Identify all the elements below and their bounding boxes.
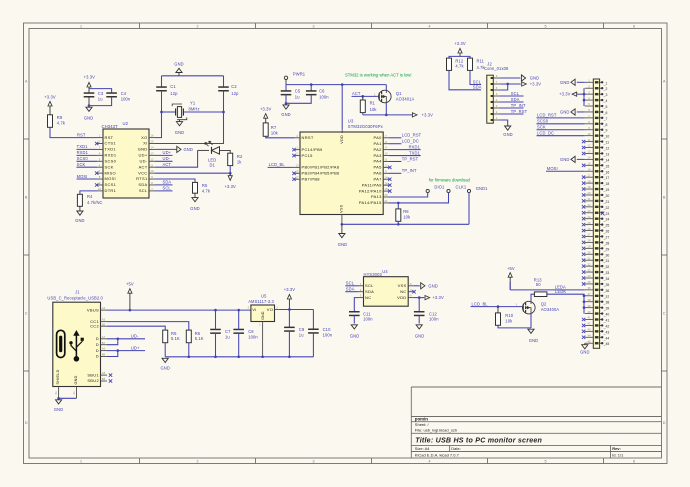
- svg-text:C3: C3: [98, 91, 104, 96]
- svg-text:R5: R5: [171, 331, 177, 336]
- svg-text:SCK: SCK: [537, 125, 546, 130]
- wire DTR1 to R4: [80, 191, 97, 194]
- svg-text:for firmware download: for firmware download: [429, 178, 471, 183]
- svg-text:CLK1: CLK1: [456, 184, 467, 189]
- svg-text:VSS: VSS: [398, 283, 407, 288]
- svg-text:14: 14: [150, 146, 154, 150]
- svg-text:11: 11: [151, 163, 154, 167]
- junction R8 top: [397, 202, 400, 205]
- svg-text:SCS0: SCS0: [537, 119, 549, 124]
- wire UD+ stub: [118, 350, 145, 352]
- svg-text:PA1: PA1: [374, 141, 383, 146]
- svg-text:_35: _35: [603, 283, 610, 287]
- svg-text:_6: _6: [603, 111, 608, 115]
- svg-text:4.7k/NC: 4.7k/NC: [87, 200, 103, 205]
- wire J2 pin1 to GND: [500, 120, 508, 126]
- ground symbol at J3 pin45: [580, 343, 589, 355]
- svg-text:TXD1: TXD1: [77, 144, 89, 149]
- J3 right side pin name labels: [603, 81, 610, 346]
- connector J3 body: [593, 79, 599, 348]
- svg-text:S1: S1: [54, 391, 58, 395]
- wire LCD_DC to J3 pin10: [537, 135, 585, 137]
- svg-text:PC14/PB9: PC14/PB9: [302, 147, 324, 152]
- wire C1 top stem: [161, 76, 163, 87]
- svg-text:4: 4: [429, 25, 431, 29]
- junction C8 top: [237, 309, 240, 312]
- svg-text:VI: VI: [252, 307, 256, 312]
- svg-text:7: 7: [496, 80, 498, 84]
- svg-text:LCD_BL: LCD_BL: [269, 162, 286, 167]
- svg-text:A: A: [663, 80, 666, 84]
- svg-text:38: 38: [587, 298, 591, 302]
- svg-text:C1: C1: [170, 84, 176, 89]
- title block size date rev labels: [415, 446, 621, 451]
- ground symbol at J3 pin14: [560, 156, 585, 162]
- svg-text:LCD_RST: LCD_RST: [402, 133, 422, 138]
- svg-text:+3.3V: +3.3V: [284, 287, 296, 292]
- svg-text:100n: 100n: [121, 97, 131, 102]
- svg-text:7: 7: [151, 187, 153, 191]
- svg-text:C7: C7: [225, 329, 231, 334]
- wire U5 GND stub down: [262, 322, 264, 357]
- wire J2 pin3 TP_INT: [500, 107, 524, 109]
- wire Q1 top to rail: [385, 85, 387, 91]
- svg-text:32: 32: [587, 262, 591, 266]
- junction U5 gnd rail: [261, 355, 264, 358]
- svg-text:TP_RST: TP_RST: [511, 109, 528, 114]
- svg-text:GND: GND: [174, 61, 183, 66]
- wire LEDA to J3 pin36: [510, 289, 585, 291]
- wire RTS1 to R3: [155, 179, 195, 182]
- svg-text:_19: _19: [603, 188, 610, 192]
- wire UD- bracket: [107, 339, 118, 345]
- svg-text:Date:: Date:: [451, 446, 461, 451]
- svg-text:D: D: [96, 342, 99, 347]
- junction R1 top: [361, 95, 364, 98]
- svg-text:9: 9: [99, 181, 101, 185]
- no-connects J3 pins 17-35: [582, 175, 585, 285]
- svg-text:6: 6: [633, 460, 635, 464]
- svg-text:MOSI: MOSI: [547, 166, 558, 171]
- svg-text:40: 40: [587, 310, 591, 314]
- capacitor C10: [308, 329, 319, 333]
- wire R8 bottom to gnd rail: [397, 221, 399, 224]
- svg-text:SBU1: SBU1: [87, 372, 99, 377]
- svg-text:XI: XI: [143, 141, 147, 146]
- svg-text:_29: _29: [603, 247, 610, 251]
- svg-text:GND: GND: [415, 334, 424, 339]
- J1 bottom pin stubs: [59, 387, 77, 399]
- wire J1 gnd to shield: [59, 397, 77, 399]
- capacitor C4: [106, 93, 117, 97]
- wire VBUS rail: [107, 309, 251, 311]
- svg-text:R9: R9: [57, 115, 63, 120]
- svg-text:26: 26: [587, 227, 591, 231]
- U4 left pin numbers: [360, 282, 362, 298]
- svg-text:12p: 12p: [170, 91, 178, 96]
- svg-text:_41: _41: [603, 319, 610, 323]
- svg-text:A1: A1: [72, 391, 76, 395]
- wire U4 VSS to GND flag: [413, 285, 420, 287]
- ground symbol below J2 pin1: [503, 126, 512, 137]
- svg-text:UD+: UD+: [138, 153, 147, 158]
- svg-text:DTR1: DTR1: [105, 188, 117, 193]
- wire UD+ stub at U2: [155, 154, 173, 156]
- wire UD- stub: [118, 338, 145, 340]
- ground symbol below R3: [190, 193, 199, 211]
- wire C7 top stem: [215, 310, 217, 329]
- wire C4 bottom to GND node: [89, 97, 112, 106]
- resistor R11: [468, 58, 473, 70]
- svg-text:_11: _11: [603, 141, 610, 145]
- svg-text:VO: VO: [267, 307, 273, 312]
- svg-text:_42: _42: [603, 324, 610, 328]
- junction J1 shield gnd: [57, 397, 60, 400]
- wire J3 pins 2-5 bracket: [583, 88, 585, 106]
- capacitor C12: [414, 312, 425, 316]
- svg-text:13: 13: [587, 150, 591, 154]
- svg-text:19: 19: [384, 187, 388, 191]
- wire C7 bottom stem: [215, 333, 217, 357]
- wire usb gnd rail: [165, 356, 313, 358]
- svg-text:4: 4: [99, 151, 101, 155]
- svg-text:17: 17: [587, 173, 591, 177]
- U4 right pin names: [397, 283, 406, 300]
- test point DIO1: [426, 189, 429, 192]
- crystal Y1: [172, 104, 187, 120]
- svg-text:15: 15: [150, 140, 154, 144]
- wire GND1 riser: [468, 193, 470, 225]
- no-connect J3 pin15: [582, 164, 585, 167]
- resistor R2: [228, 153, 233, 165]
- svg-text:RST: RST: [105, 135, 114, 140]
- no-connect U2 MISO: [95, 171, 98, 174]
- svg-text:VDD: VDD: [397, 295, 406, 300]
- wire C5 C6 bottoms to GND: [286, 95, 311, 104]
- wire U5 VO rail: [280, 309, 314, 311]
- svg-text:_37: _37: [603, 295, 610, 299]
- capacitor C3: [84, 93, 95, 97]
- svg-text:GND: GND: [138, 147, 148, 152]
- svg-text:50: 50: [536, 282, 541, 287]
- wire SCL stub at U2: [155, 190, 173, 192]
- wire C2 top stem: [223, 76, 225, 87]
- svg-text:GND: GND: [338, 242, 347, 247]
- wire J2 pin4 SDA: [500, 101, 524, 103]
- svg-text:17: 17: [295, 175, 299, 179]
- junction UD- bracket: [116, 337, 119, 340]
- svg-text:1: 1: [99, 134, 101, 138]
- wire C10 bottom stem: [312, 333, 314, 357]
- svg-text:_26: _26: [603, 230, 610, 234]
- svg-text:_2: _2: [603, 87, 608, 91]
- svg-text:12p: 12p: [231, 91, 239, 96]
- svg-text:19: 19: [587, 185, 591, 189]
- svg-text:NC: NC: [365, 295, 371, 300]
- svg-text:C: C: [25, 312, 28, 316]
- svg-text:GND: GND: [503, 132, 512, 137]
- svg-text:D: D: [663, 421, 666, 425]
- junction J3 pin3: [583, 93, 586, 96]
- svg-text:11: 11: [588, 138, 591, 142]
- svg-text:_20: _20: [603, 194, 610, 198]
- svg-text:_38: _38: [603, 301, 610, 305]
- capacitor C5: [281, 91, 292, 95]
- svg-text:GND: GND: [190, 206, 199, 211]
- svg-text:DIO1: DIO1: [434, 184, 445, 189]
- svg-text:10: 10: [98, 187, 102, 191]
- wire J2 pin2 TP_RST: [500, 113, 524, 115]
- svg-text:10k: 10k: [271, 131, 279, 136]
- capacitor C2: [218, 87, 229, 91]
- svg-text:GND: GND: [75, 218, 84, 223]
- svg-text:3: 3: [313, 25, 315, 29]
- resistor R9: [48, 115, 53, 128]
- wire R11 R12 top rail: [449, 56, 470, 58]
- U4 right pin stubs: [408, 286, 413, 298]
- svg-text:_13: _13: [603, 152, 610, 156]
- svg-text:22: 22: [587, 203, 591, 207]
- svg-text:+3.3V: +3.3V: [224, 184, 236, 189]
- title block box: [411, 387, 661, 458]
- svg-text:SDA: SDA: [365, 289, 374, 294]
- svg-text:USB_C_Receptacle_USB2.0: USB_C_Receptacle_USB2.0: [47, 295, 103, 300]
- svg-text:_43: _43: [603, 330, 610, 334]
- ground symbol at J3 pin6: [560, 109, 585, 115]
- wire J2 pin5 SCL: [500, 95, 524, 97]
- resistor R6 CC pulldown: [186, 330, 191, 343]
- svg-text:PA13: PA13: [371, 194, 382, 199]
- svg-text:10k: 10k: [403, 214, 411, 219]
- svg-text:_7: _7: [603, 117, 608, 121]
- ground symbol at U2 GND pin: [155, 146, 193, 152]
- svg-text:GND: GND: [184, 147, 193, 152]
- svg-text:SCS0: SCS0: [105, 158, 117, 163]
- junction C6 top: [310, 83, 313, 86]
- svg-text:5.1K: 5.1K: [195, 336, 204, 341]
- svg-text:27: 27: [587, 233, 591, 237]
- ground symbol below C12: [415, 325, 424, 339]
- svg-text:SCL: SCL: [139, 188, 148, 193]
- no-connect U2 CTS1: [95, 142, 98, 145]
- wire Q2 drain to R13: [531, 294, 534, 301]
- svg-text:30: 30: [587, 250, 591, 254]
- wire PA1 LCD_DC: [389, 143, 401, 145]
- junction UD+ bracket: [116, 349, 119, 352]
- U4 left pin names: [365, 283, 374, 300]
- junction +3.3V VO rail: [288, 308, 291, 311]
- svg-text:_10: _10: [603, 135, 610, 139]
- svg-text:PA4: PA4: [374, 159, 383, 164]
- wire LED cathode to R2: [220, 150, 231, 153]
- svg-text:4.7k: 4.7k: [455, 64, 464, 69]
- wire TXD1 stub: [77, 148, 98, 150]
- J3 pin stubs: [585, 82, 594, 343]
- LED D1: [205, 141, 220, 154]
- J1 pin names: [87, 307, 100, 383]
- wire J2 pin6 up to pin7 wire: [500, 84, 508, 90]
- svg-text:4: 4: [496, 98, 498, 102]
- USB-C plug icon: [57, 330, 65, 357]
- svg-text:16: 16: [150, 134, 154, 138]
- svg-text:R10: R10: [505, 313, 513, 318]
- svg-text:LCD_RST: LCD_RST: [537, 113, 557, 118]
- wire PA13 to DIO1: [389, 193, 428, 197]
- svg-text:5: 5: [99, 157, 101, 161]
- no-connect U3 PA12: [388, 189, 391, 192]
- wire C8 top stem: [238, 310, 240, 329]
- svg-text:ACT: ACT: [163, 162, 172, 167]
- svg-text:100n: 100n: [323, 332, 333, 337]
- svg-text:3: 3: [248, 305, 250, 309]
- svg-text:LCD_DC: LCD_DC: [402, 139, 419, 144]
- svg-text:+5V: +5V: [507, 266, 515, 271]
- no-connect U3 PA7: [388, 178, 391, 181]
- svg-text:23: 23: [587, 209, 591, 213]
- U3 left pin numbers: [295, 134, 299, 179]
- svg-text:21: 21: [587, 197, 591, 201]
- wire LCD_RST to J3 pin7: [537, 117, 585, 119]
- svg-text:RXD1: RXD1: [105, 153, 117, 158]
- resistor R7: [263, 123, 268, 136]
- svg-text:STM32G030F6Px: STM32G030F6Px: [348, 124, 384, 129]
- svg-text:9: 9: [385, 146, 387, 150]
- svg-text:C4: C4: [121, 91, 127, 96]
- ground symbol below R4: [75, 206, 84, 223]
- power +3.3V above C3: [84, 74, 96, 93]
- svg-text:A5: A5: [102, 318, 106, 322]
- frame row letters: [25, 80, 666, 426]
- svg-text:LCD_DC: LCD_DC: [537, 130, 554, 135]
- svg-text:R6: R6: [195, 331, 201, 336]
- junction +5V VBUS: [129, 309, 132, 312]
- svg-text:+3.3V: +3.3V: [530, 82, 542, 87]
- svg-text:8MHz: 8MHz: [189, 107, 200, 112]
- svg-text:R12: R12: [455, 58, 463, 63]
- svg-text:UD-: UD-: [131, 334, 139, 339]
- wire SCS0 stub: [77, 160, 98, 162]
- svg-text:SDA: SDA: [473, 85, 482, 90]
- wire C9 bottom stem: [288, 331, 290, 357]
- wire C5 top stem: [285, 85, 287, 91]
- svg-text:10: 10: [150, 169, 154, 173]
- svg-text:_4: _4: [603, 99, 608, 103]
- svg-text:A4: A4: [102, 306, 106, 310]
- svg-text:GND: GND: [530, 76, 539, 81]
- wire PA3 TXD1: [389, 155, 421, 157]
- resistor R12: [447, 58, 452, 70]
- svg-text:+3.3V: +3.3V: [260, 107, 272, 112]
- wire J2 pin8 to GND flag: [500, 77, 520, 79]
- svg-text:_5: _5: [603, 105, 608, 109]
- svg-text:4: 4: [410, 288, 412, 292]
- svg-text:U3: U3: [348, 118, 354, 123]
- wire RXD1 stub: [77, 154, 98, 156]
- wire R10 bottom to gnd: [498, 325, 531, 328]
- svg-text:+3.3V: +3.3V: [432, 295, 444, 300]
- power +3.3V above R11 R12: [454, 41, 466, 56]
- svg-text:D: D: [96, 348, 99, 353]
- svg-text:16: 16: [587, 167, 591, 171]
- ground symbol below C3: [86, 107, 92, 111]
- wire crystal right: [183, 111, 223, 113]
- svg-text:PA0: PA0: [374, 135, 383, 140]
- svg-text:TXD1: TXD1: [409, 150, 421, 155]
- svg-text:8: 8: [385, 140, 387, 144]
- svg-text:100n: 100n: [248, 334, 258, 339]
- svg-text:J1: J1: [75, 290, 80, 295]
- svg-text:PA5: PA5: [374, 165, 383, 170]
- wire R12 bottom to SDA stub: [449, 70, 481, 89]
- wire LCD_BL to Q2 gate: [471, 306, 523, 308]
- wire +5V down to LEDA: [509, 282, 511, 290]
- svg-text:TP_INT: TP_INT: [402, 168, 417, 173]
- svg-text:1: 1: [259, 323, 261, 327]
- no-connect U2 SCS1: [95, 183, 98, 186]
- svg-text:PA11/PA9: PA11/PA9: [362, 182, 382, 187]
- svg-text:SDA: SDA: [346, 287, 355, 292]
- svg-text:RXD1: RXD1: [77, 150, 89, 155]
- wire U4 VDD: [413, 297, 424, 299]
- ground symbol below crystal: [175, 120, 184, 135]
- svg-text:+3.3V: +3.3V: [422, 112, 434, 117]
- svg-text:7: 7: [99, 169, 101, 173]
- wire PA4 TP_RST: [389, 160, 401, 162]
- wire UD- stub at U2: [155, 160, 173, 162]
- ground symbol below U3 VSS: [338, 224, 347, 247]
- wire R7 to NRST: [266, 136, 295, 138]
- junction C9 bottom: [288, 355, 291, 358]
- svg-text:PB7/PB8: PB7/PB8: [302, 176, 321, 181]
- wire Q1 bottom to rail: [385, 103, 387, 115]
- svg-text:+3.3V: +3.3V: [44, 95, 56, 100]
- svg-text:1: 1: [496, 116, 498, 120]
- svg-text:MOSI: MOSI: [105, 176, 116, 181]
- svg-text:_8: _8: [603, 123, 608, 127]
- svg-text:28: 28: [587, 239, 591, 243]
- svg-text:2: 2: [197, 25, 199, 29]
- svg-text:ACT: ACT: [352, 91, 361, 96]
- junction R8 gnd rail: [397, 223, 400, 226]
- svg-text:5: 5: [496, 92, 498, 96]
- J2 pin stubs: [493, 78, 500, 120]
- svg-text:Q1: Q1: [396, 91, 402, 96]
- wire ACT riser to LED anode: [198, 149, 209, 151]
- wire C9 top stem: [288, 310, 290, 328]
- svg-text:Conn_01x08: Conn_01x08: [484, 66, 509, 71]
- power +5V above VBUS: [126, 281, 134, 310]
- wire RST net from R9 to U2 pin1: [50, 127, 97, 137]
- U3 VDD pin stub: [341, 129, 343, 133]
- U3 right pin stubs: [383, 138, 389, 203]
- svg-text:A6: A6: [102, 347, 106, 351]
- svg-text:3: 3: [99, 146, 101, 150]
- wire C12 bottom stem: [418, 315, 420, 323]
- wire PA14 to CLK1: [389, 193, 449, 203]
- wire C10 branch: [312, 310, 314, 330]
- svg-text:13: 13: [150, 151, 154, 155]
- U2 left pin numbers: [98, 134, 102, 191]
- svg-text:GND: GND: [84, 116, 93, 121]
- svg-text:14: 14: [587, 156, 591, 160]
- frame column numbers: [80, 25, 635, 464]
- svg-text:VBUS: VBUS: [87, 307, 99, 312]
- wire MOSI to J3 pin16: [546, 170, 585, 172]
- wire PA6 TP_INT: [389, 172, 401, 174]
- wire SCK to J3 pin9: [537, 129, 585, 131]
- svg-text:25: 25: [587, 221, 591, 225]
- power +3.3V arrow right of Q1: [412, 112, 433, 117]
